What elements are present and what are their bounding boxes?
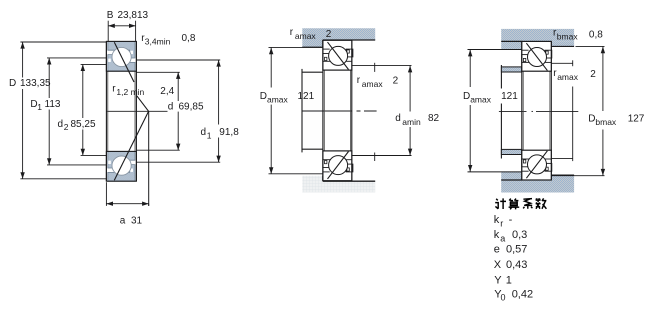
svg-text:-: - <box>509 214 513 226</box>
svg-text:amax: amax <box>267 95 289 105</box>
svg-text:121: 121 <box>298 91 315 102</box>
svg-text:121: 121 <box>501 91 518 102</box>
svg-text:1,2 min: 1,2 min <box>116 87 144 97</box>
svg-text:D: D <box>463 91 470 102</box>
svg-text:0,8: 0,8 <box>589 30 603 41</box>
svg-text:2: 2 <box>326 29 332 40</box>
svg-text:113: 113 <box>45 99 61 110</box>
svg-text:amax: amax <box>470 94 492 104</box>
svg-text:82: 82 <box>428 113 440 124</box>
svg-text:d: d <box>58 119 64 130</box>
svg-text:31: 31 <box>131 216 143 227</box>
svg-text:D: D <box>260 91 267 102</box>
svg-text:91,8: 91,8 <box>219 127 239 138</box>
svg-text:2: 2 <box>393 75 399 86</box>
svg-text:0,8: 0,8 <box>182 33 196 44</box>
svg-text:1: 1 <box>207 130 212 140</box>
svg-text:85,25: 85,25 <box>71 119 96 130</box>
svg-text:k: k <box>494 229 500 241</box>
svg-text:B: B <box>107 10 114 21</box>
svg-text:0: 0 <box>501 292 506 302</box>
svg-text:r: r <box>500 218 503 228</box>
svg-text:amax: amax <box>362 79 384 89</box>
svg-text:133,35: 133,35 <box>20 78 51 89</box>
svg-text:0,57: 0,57 <box>506 243 527 255</box>
svg-text:2: 2 <box>64 122 69 132</box>
svg-text:amin: amin <box>402 117 421 127</box>
svg-text:0,42: 0,42 <box>512 288 533 300</box>
svg-text:bmax: bmax <box>557 31 579 41</box>
svg-text:23,813: 23,813 <box>118 10 149 21</box>
svg-text:d: d <box>395 113 401 124</box>
svg-text:a: a <box>500 233 505 243</box>
svg-text:D: D <box>588 114 595 125</box>
svg-text:bmax: bmax <box>595 117 617 127</box>
svg-text:1: 1 <box>506 274 512 286</box>
svg-text:69,85: 69,85 <box>179 102 204 113</box>
svg-text:0,43: 0,43 <box>506 259 527 271</box>
svg-text:a: a <box>120 216 126 227</box>
svg-text:Y: Y <box>494 274 502 286</box>
svg-text:X: X <box>494 259 502 271</box>
svg-text:0,3: 0,3 <box>512 229 527 241</box>
svg-text:1: 1 <box>37 102 42 112</box>
svg-text:D: D <box>9 78 16 89</box>
svg-text:e: e <box>494 243 500 255</box>
svg-text:amax: amax <box>295 31 317 41</box>
svg-text:d: d <box>168 102 174 113</box>
svg-text:2: 2 <box>590 69 596 80</box>
svg-text:127: 127 <box>628 114 645 125</box>
svg-text:amax: amax <box>557 72 579 82</box>
svg-text:d: d <box>201 127 207 138</box>
svg-text:3,4min: 3,4min <box>145 37 171 47</box>
svg-text:2,4: 2,4 <box>160 86 174 97</box>
svg-text:k: k <box>494 214 500 226</box>
